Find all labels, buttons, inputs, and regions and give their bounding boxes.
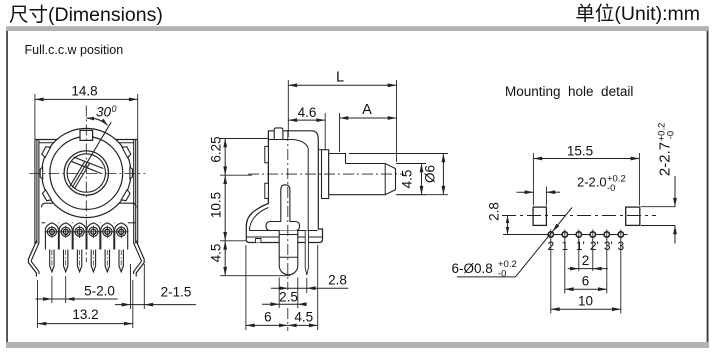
side view: bottom dimensions 6 and 4.5 (245, 245, 247, 330)
frame left border (6, 31, 8, 342)
side view: left dimension column 6.25 / 10.5 / 4.5 (220, 138, 268, 140)
mounting hole detail: dimension 2-2.0 with tolerance (545, 187, 547, 206)
mounting hole detail: dimension 15.5 (532, 153, 534, 206)
front view: rotor middle circle (50, 137, 123, 210)
svg-text:Ø6: Ø6 (423, 165, 438, 183)
svg-text:6: 6 (582, 274, 590, 289)
side view: bushing diameter 6 (349, 153, 448, 155)
side view: dimension 2.5 (278, 278, 280, 309)
side view: front pin (279, 231, 298, 275)
svg-text:4.6: 4.6 (298, 105, 317, 120)
svg-text:0: 0 (111, 104, 116, 114)
side view: inner top contour (268, 140, 308, 149)
svg-text:6: 6 (264, 310, 272, 325)
side view: bushing (329, 154, 346, 195)
svg-text:4.5: 4.5 (400, 170, 415, 189)
front view: rotor outer circle (42, 128, 131, 217)
mounting hole detail: left slot (533, 207, 546, 225)
front view: dimension 14.8 (34, 94, 36, 139)
mounting hole detail: hole size leader 6-diam 0.8 (457, 276, 516, 278)
side view: top tab (274, 128, 283, 140)
svg-text:L: L (336, 70, 344, 86)
front view: rotor top index tab (80, 130, 93, 140)
svg-text:6-Ø0.8: 6-Ø0.8 (452, 261, 493, 276)
front view: 30-degree rotor position line (72, 122, 111, 188)
svg-text:Mounting hole detail: Mounting hole detail (505, 84, 633, 99)
svg-text:2.8: 2.8 (487, 202, 502, 221)
mounting hole detail: right slot (626, 207, 640, 225)
front view: terminal eyelets and legs (45, 223, 58, 250)
side view: T-shaped center lug (266, 185, 300, 231)
front view: screwdriver slot (74, 157, 104, 169)
front view: rotor ring circles (64, 151, 108, 195)
svg-text:4.5: 4.5 (209, 244, 224, 263)
svg-text:5-2.0: 5-2.0 (84, 284, 115, 299)
front view: center lines (85, 106, 87, 263)
svg-text:-0: -0 (666, 131, 677, 139)
svg-text:3': 3' (604, 239, 613, 253)
mounting hole detail: slot center line (502, 215, 656, 217)
svg-text:2': 2' (590, 239, 599, 253)
svg-text:2.5: 2.5 (279, 290, 298, 305)
side view: left clips (265, 146, 269, 162)
svg-text:2: 2 (582, 253, 590, 268)
side view: rear pin (305, 231, 308, 275)
side view: inner lines (307, 148, 309, 241)
frame top grey bar (6, 26, 709, 31)
svg-text:6.25: 6.25 (209, 136, 224, 162)
svg-text:2-1.5: 2-1.5 (161, 285, 192, 300)
front view: dimension 5-2.0 (51, 276, 53, 303)
svg-text:-0: -0 (607, 183, 615, 194)
svg-text:10: 10 (578, 294, 593, 309)
mounting hole detail: dimension 2.8 (vertical) (507, 216, 509, 235)
side view: shaft dimension 4.5 (396, 163, 426, 165)
side view: dimension 4.6 (324, 113, 326, 150)
svg-text:单位(Unit):mm: 单位(Unit):mm (575, 3, 700, 25)
frame bottom grey bar (6, 342, 709, 348)
mounting hole detail: dimension 2-2.7 with tolerance (vertical) (641, 206, 675, 208)
svg-text:尺寸(Dimensions): 尺寸(Dimensions) (9, 4, 163, 26)
side view: dimension A (339, 113, 341, 152)
front view: right mounting wing (136, 241, 144, 277)
svg-text:Full.c.c.w position: Full.c.c.w position (25, 43, 124, 57)
front view: left mounting wing (28, 241, 36, 277)
side view: dimension 2.8 (306, 278, 308, 293)
front view: dimension 2-1.5 (130, 264, 132, 309)
side view: body outline (246, 131, 322, 243)
side view: dimension L (287, 80, 289, 137)
frame right border (707, 31, 709, 342)
svg-text:2.8: 2.8 (328, 273, 347, 288)
front view: potentiometer body walls (35, 139, 57, 141)
svg-text:15.5: 15.5 (567, 144, 593, 159)
svg-text:1': 1' (576, 239, 585, 253)
svg-text:30: 30 (96, 105, 112, 120)
mounting hole detail: dimension 2 (578, 239, 580, 271)
side view: center lines (248, 173, 404, 175)
mounting hole detail: dimension 10 (550, 239, 552, 314)
front view: rotor castellation tabs (42, 147, 51, 158)
svg-text:4.5: 4.5 (294, 310, 313, 325)
svg-text:10.5: 10.5 (209, 192, 224, 218)
svg-text:14.8: 14.8 (71, 84, 97, 99)
svg-text:2-2.7: 2-2.7 (657, 142, 674, 176)
mounting hole detail: terminal holes row (503, 234, 628, 236)
front view: dimension 13.2 (37, 280, 39, 328)
mounting hole detail: dimension 6 (564, 239, 566, 294)
side view: shaft bushing plate (322, 150, 329, 199)
svg-text:13.2: 13.2 (72, 307, 98, 322)
front view: pin block (42, 203, 54, 207)
svg-text:A: A (362, 102, 372, 118)
svg-text:-0: -0 (498, 269, 506, 280)
svg-text:2-2.0: 2-2.0 (577, 175, 607, 190)
side view: shaft (329, 164, 396, 195)
